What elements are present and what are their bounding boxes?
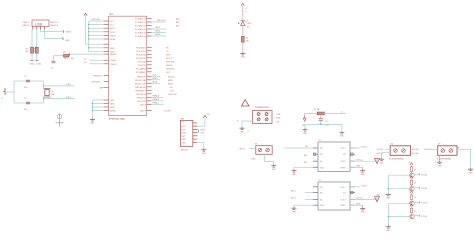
pin <box>147 53 152 55</box>
svg-text:VS: VS <box>343 154 346 156</box>
net label <box>166 61 175 63</box>
wire <box>197 132 198 134</box>
svg-text:MOT-A1: MOT-A1 <box>412 148 419 151</box>
svg-text:LED3: LED3 <box>155 34 161 36</box>
wire bus <box>88 21 90 52</box>
svg-text:ARF: ARF <box>100 86 105 89</box>
wire <box>89 38 104 40</box>
pin <box>147 57 152 59</box>
terminal <box>441 149 445 153</box>
net label XTAL2 <box>66 97 71 99</box>
wire <box>198 129 200 132</box>
net label <box>304 162 307 164</box>
svg-text:VREF: VREF <box>340 205 346 207</box>
pin <box>147 46 152 48</box>
net flag GND1 <box>63 37 70 42</box>
svg-text:1k5: 1k5 <box>26 51 29 53</box>
resistor R2 <box>33 47 38 53</box>
pin <box>350 204 355 206</box>
svg-text:1k: 1k <box>414 197 416 199</box>
svg-text:ADC6: ADC6 <box>140 103 146 106</box>
wire <box>152 82 174 86</box>
pin <box>147 89 152 91</box>
net flag VBUS <box>64 30 72 34</box>
svg-text:GND: GND <box>386 198 391 200</box>
ground <box>339 131 344 137</box>
supply +V Q5 <box>408 203 413 206</box>
ground <box>360 170 365 176</box>
svg-text:G: G <box>248 131 250 133</box>
ground <box>292 207 297 213</box>
svg-text:1 2: 1 2 <box>181 122 184 124</box>
svg-text:100u: 100u <box>325 125 329 127</box>
ground <box>240 127 250 133</box>
svg-text:SCREWTERMINAL: SCREWTERMINAL <box>389 157 404 160</box>
pin 1 <box>32 27 34 30</box>
pin <box>147 50 152 52</box>
svg-text:VREF: VREF <box>340 167 346 169</box>
svg-text:IN1: IN1 <box>304 155 307 157</box>
svg-text:X4: X4 <box>391 144 394 146</box>
pin <box>147 110 152 112</box>
svg-text:AD1: AD1 <box>176 21 180 24</box>
junction <box>88 47 89 48</box>
junction <box>92 103 93 104</box>
wire <box>91 100 93 118</box>
pin <box>147 21 152 23</box>
svg-text:OUT-B1: OUT-B1 <box>424 149 431 151</box>
svg-text:1k: 1k <box>414 210 416 212</box>
pin label right <box>51 22 60 27</box>
pin <box>350 198 355 200</box>
svg-text:OUT-A1: OUT-A1 <box>421 173 427 176</box>
svg-text:MOT-A2: MOT-A2 <box>412 152 419 155</box>
wire <box>44 30 63 39</box>
resistor R3 <box>63 52 74 60</box>
svg-text:68: 68 <box>33 51 35 53</box>
ground <box>386 226 391 232</box>
junction <box>388 188 389 189</box>
net label <box>166 47 169 49</box>
wire <box>92 110 103 112</box>
svg-text:IN2: IN2 <box>320 193 324 195</box>
svg-text:GND: GND <box>361 174 366 176</box>
svg-text:AGND: AGND <box>110 110 117 113</box>
supply +V Q4 <box>408 190 413 193</box>
svg-text:PD7(AIN1): PD7(AIN1) <box>136 71 146 74</box>
net label <box>377 148 384 151</box>
pin <box>193 125 198 127</box>
net label <box>176 25 180 28</box>
svg-text:uC: uC <box>84 58 87 60</box>
svg-text:VS: VS <box>343 193 346 195</box>
pin <box>147 64 152 66</box>
wire UVCC <box>84 58 104 60</box>
wire <box>31 30 33 61</box>
pin <box>313 153 318 155</box>
ground <box>90 118 95 124</box>
svg-text:LED1: LED1 <box>155 27 161 29</box>
svg-text:OUT2: OUT2 <box>340 199 346 201</box>
junction <box>320 124 321 125</box>
wire <box>152 103 164 105</box>
svg-text:GND: GND <box>361 212 366 214</box>
terminal <box>257 113 260 121</box>
wire out <box>414 173 419 175</box>
wire <box>89 31 104 33</box>
wire <box>53 55 66 57</box>
net flag OUT-B1 <box>420 201 428 204</box>
svg-text:(PB6)XT1: (PB6)XT1 <box>94 76 104 78</box>
pin <box>313 192 318 194</box>
svg-text:ADC-SCL: ADC-SCL <box>158 19 166 22</box>
wire base <box>388 216 410 218</box>
svg-text:AVCC: AVCC <box>110 27 116 30</box>
svg-text:GND: GND <box>241 57 246 59</box>
net label <box>176 21 180 24</box>
svg-text:PWM-B: PWM-B <box>153 99 160 101</box>
svg-text:GND: GND <box>202 153 207 155</box>
wire AVCC <box>86 16 104 45</box>
ground <box>303 129 308 135</box>
net label <box>276 121 279 123</box>
junction <box>92 106 93 107</box>
svg-text:OUT1-2: OUT1-2 <box>361 185 368 187</box>
pin <box>193 128 198 130</box>
net label <box>306 146 310 148</box>
svg-text:AVR-ISP: AVR-ISP <box>181 149 189 152</box>
wire <box>152 27 166 29</box>
supply +V Q3 <box>408 175 413 178</box>
wire <box>14 80 44 82</box>
wire <box>362 205 364 207</box>
svg-text:OUT2: OUT2 <box>340 161 346 163</box>
pin <box>313 198 318 200</box>
junction <box>88 24 89 25</box>
svg-text:VCC: VCC <box>110 25 115 27</box>
junction <box>198 130 199 131</box>
wire <box>89 20 104 22</box>
resistor R7 <box>410 195 416 200</box>
svg-text:PWM-C: PWM-C <box>153 103 160 105</box>
pin label AREF <box>100 86 105 89</box>
wire <box>152 78 174 82</box>
ground <box>201 149 206 155</box>
wire <box>14 102 44 104</box>
junction <box>43 98 44 99</box>
resistor R5 <box>410 167 416 172</box>
net label <box>166 64 173 67</box>
pin <box>350 147 355 149</box>
pin <box>147 82 152 84</box>
net label <box>361 147 368 149</box>
svg-text:VCC: VCC <box>110 21 115 23</box>
ground <box>468 168 473 174</box>
svg-text:OC2: OC2 <box>170 90 174 92</box>
wire <box>350 186 360 188</box>
svg-text:IN1: IN1 <box>320 148 324 150</box>
pin <box>147 75 152 77</box>
pin <box>104 34 109 36</box>
pin <box>147 67 152 69</box>
svg-text:MOSI: MOSI <box>181 133 186 135</box>
svg-text:IN2-2: IN2-2 <box>291 198 296 200</box>
resistor R6 <box>410 180 416 185</box>
pin names IC3 <box>320 187 347 207</box>
net label XTAL1 <box>66 84 71 86</box>
pin <box>104 27 109 29</box>
svg-text:PC3(ADC3): PC3(ADC3) <box>135 28 146 31</box>
pin 2 <box>36 27 38 30</box>
svg-text:PD2(INT0): PD2(INT0) <box>136 54 146 56</box>
resistor R1 <box>26 47 34 53</box>
svg-text:R2: R2 <box>33 49 35 51</box>
svg-text:MOSI: MOSI <box>168 83 173 85</box>
wire <box>242 6 244 21</box>
wire base <box>388 174 410 176</box>
svg-text:IN2: IN2 <box>320 154 324 156</box>
pin label VBUS <box>23 21 30 27</box>
ground <box>1 88 5 100</box>
capacitor C3 <box>51 56 56 70</box>
terminal <box>266 148 270 152</box>
svg-text:LED1: LED1 <box>247 23 251 25</box>
junction <box>388 216 389 217</box>
net label <box>170 87 173 89</box>
svg-text:XTAL1: XTAL1 <box>110 59 117 62</box>
pin <box>350 166 355 168</box>
terminal <box>265 113 268 121</box>
wire <box>439 155 441 161</box>
pin <box>104 20 109 22</box>
pin <box>350 186 355 188</box>
pin <box>104 63 109 65</box>
svg-text:USB: USB <box>35 23 43 27</box>
wire <box>13 81 15 103</box>
svg-text:MS2-BCD: MS2-BCD <box>166 68 175 70</box>
svg-text:UCAP: UCAP <box>110 38 116 41</box>
wire <box>324 112 346 114</box>
junction <box>88 28 89 29</box>
connector X2 <box>253 107 273 123</box>
svg-text:RST: RST <box>181 136 186 138</box>
svg-text:PB2(OC1B): PB2(OC1B) <box>135 83 146 85</box>
svg-text:RX: RX <box>166 47 169 49</box>
supply +5V <box>203 114 210 118</box>
wire <box>304 124 306 128</box>
ground <box>240 52 245 58</box>
svg-text:SCK: SCK <box>201 132 205 134</box>
svg-text:TX-LED: TX-LED <box>164 111 171 113</box>
pin <box>104 75 109 77</box>
svg-text:1k: 1k <box>414 183 416 185</box>
wire base <box>388 188 410 190</box>
svg-text:GND: GND <box>110 104 115 106</box>
svg-text:OUT-A2: OUT-A2 <box>377 152 384 155</box>
pin <box>193 135 198 137</box>
svg-text:GND: GND <box>110 107 115 109</box>
wire <box>350 198 377 200</box>
net flag VMOT <box>302 116 306 128</box>
svg-text:OUT1-1: OUT1-1 <box>361 147 368 149</box>
svg-text:GND: GND <box>91 123 96 125</box>
wire <box>197 142 204 148</box>
wire <box>294 205 313 207</box>
svg-text:V: V <box>245 11 247 13</box>
svg-text:STEP-EN: STEP-EN <box>166 61 175 63</box>
net label <box>166 54 170 56</box>
pin <box>104 59 109 61</box>
wire base <box>388 202 410 204</box>
svg-text:1k: 1k <box>414 169 416 171</box>
svg-text:G: G <box>1 98 3 100</box>
svg-text:PB4(MISO): PB4(MISO) <box>135 90 146 92</box>
svg-text:C2: C2 <box>24 98 27 100</box>
svg-text:X3: X3 <box>255 143 258 145</box>
svg-text:UVCC: UVCC <box>110 32 116 34</box>
connector X1 USB <box>32 20 49 27</box>
supply +5V <box>241 3 247 13</box>
svg-text:GND: GND <box>240 131 245 133</box>
wire <box>411 206 413 208</box>
wire <box>350 147 360 149</box>
pin <box>313 147 318 149</box>
junction <box>43 85 44 86</box>
svg-text:PAD2 G: PAD2 G <box>23 24 30 27</box>
ground <box>292 170 297 176</box>
net label VCC <box>92 19 101 21</box>
svg-text:(PB6): (PB6) <box>66 84 71 86</box>
wire UGND <box>84 62 104 64</box>
net label <box>412 148 419 155</box>
transistor Q4 <box>410 201 414 205</box>
wire <box>411 171 413 173</box>
wire <box>411 185 413 187</box>
terminal block X5 <box>437 144 458 161</box>
wire <box>305 198 313 200</box>
wire <box>89 27 104 29</box>
pin <box>350 160 355 162</box>
pin names SV1 <box>181 122 186 144</box>
wire <box>43 97 45 103</box>
net label <box>276 114 281 116</box>
svg-text:C3: C3 <box>51 68 54 70</box>
svg-text:OUT1: OUT1 <box>340 148 346 150</box>
pin <box>104 31 109 33</box>
pin <box>104 53 109 55</box>
svg-text:PB7(XT2): PB7(XT2) <box>137 101 146 103</box>
net label <box>276 118 281 120</box>
net label <box>240 148 245 150</box>
wire <box>152 34 166 36</box>
net flag OUT-A2 <box>420 187 428 190</box>
svg-text:PC1(ADC1): PC1(ADC1) <box>135 21 146 24</box>
svg-text:PWM-A: PWM-A <box>153 95 160 98</box>
svg-text:PB1(OC1A): PB1(OC1A) <box>135 79 146 82</box>
svg-text:GND: GND <box>292 211 297 213</box>
wire <box>362 167 364 169</box>
wire <box>411 213 413 215</box>
terminal <box>258 148 262 152</box>
pin <box>313 186 318 188</box>
pin <box>193 138 198 140</box>
pin 4 <box>43 27 45 30</box>
pin label PB6 <box>94 76 104 78</box>
crystal Q1 <box>44 89 55 98</box>
net label <box>176 18 180 21</box>
svg-text:RTS: RTS <box>64 58 69 60</box>
svg-text:PB5(SCK): PB5(SCK) <box>136 94 146 96</box>
pin label PB7 <box>92 81 102 83</box>
svg-text:SCK: SCK <box>181 129 186 131</box>
wire <box>294 167 313 169</box>
net flag RST <box>64 53 70 60</box>
svg-text:16M: 16M <box>51 94 55 96</box>
pin <box>350 153 355 155</box>
svg-text:X5: X5 <box>438 144 441 146</box>
junction <box>88 38 89 39</box>
svg-text:GND: GND <box>303 133 308 135</box>
capacitor C1 <box>24 76 30 89</box>
svg-text:ATMEGA8-16AU: ATMEGA8-16AU <box>109 117 126 120</box>
ground <box>271 165 276 171</box>
net flag USB+ <box>35 61 42 66</box>
svg-text:GND: GND <box>292 174 297 176</box>
svg-text:OUT2-2: OUT2-2 <box>356 198 363 200</box>
wire <box>430 148 438 150</box>
LED LED1 <box>241 20 252 28</box>
svg-text:CLKO-ICP: CLKO-ICP <box>168 94 178 96</box>
pin <box>147 93 152 95</box>
svg-text:22p: 22p <box>24 109 28 111</box>
net marker <box>351 153 353 155</box>
svg-text:PD5(T1): PD5(T1) <box>138 65 146 67</box>
svg-text:TX: TX <box>166 51 169 53</box>
svg-text:AD0: AD0 <box>176 18 180 21</box>
capacitor C2 <box>24 98 30 111</box>
svg-text:GND: GND <box>356 166 361 168</box>
net label <box>356 159 363 161</box>
supply VMOT triangle <box>375 197 380 202</box>
junction <box>92 110 93 111</box>
pin <box>104 47 109 49</box>
svg-text:SD: SD <box>320 161 323 163</box>
svg-text:OUT2-1: OUT2-1 <box>356 159 363 161</box>
wire <box>305 124 342 131</box>
wire <box>411 200 413 202</box>
connector X3 <box>255 143 273 154</box>
pin <box>147 96 152 98</box>
svg-text:PC4(ADC4): PC4(ADC4) <box>135 32 146 35</box>
wire <box>264 154 273 164</box>
svg-text:INT1-X: INT1-X <box>166 58 173 60</box>
net marker <box>351 191 353 193</box>
svg-text:GND: GND <box>110 48 115 50</box>
svg-text:USB+: USB+ <box>37 64 43 66</box>
pin <box>104 110 109 112</box>
svg-text:R3: R3 <box>63 52 66 54</box>
pin <box>104 51 109 53</box>
pin <box>193 122 198 124</box>
svg-text:F1 3A: F1 3A <box>314 108 320 111</box>
svg-text:VBUS: VBUS <box>110 35 116 37</box>
resistor R8 <box>410 208 416 213</box>
wire <box>89 34 104 36</box>
svg-text:PAD1 V: PAD1 V <box>23 21 30 24</box>
wire <box>387 203 389 225</box>
net label <box>201 129 206 134</box>
svg-text:USB-: USB- <box>30 64 35 66</box>
